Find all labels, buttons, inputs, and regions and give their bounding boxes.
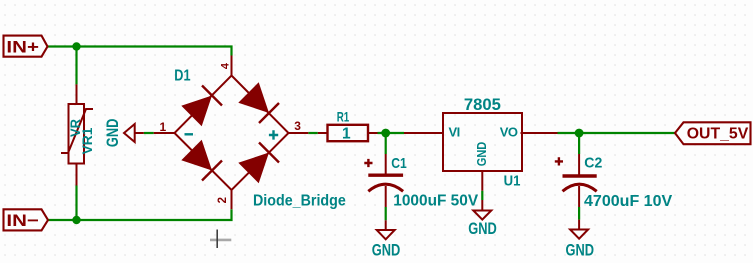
wire VR1 bottom to IN- rail — [75, 186, 77, 221]
wire top rail IN+ to bridge pin4 corner — [48, 47, 232, 56]
svg-text:VR1: VR1 — [79, 127, 95, 154]
wire U1 GND pin to GND symbol — [481, 191, 483, 200]
bridge pin name minus — [185, 133, 194, 135]
C2 plus sign — [555, 157, 563, 165]
GND power symbol under U1 — [473, 200, 491, 220]
svg-text:C1: C1 — [391, 155, 407, 172]
hierarchical label OUT_5V — [675, 122, 751, 144]
hierarchical label IN+ — [4, 36, 48, 57]
hierarchical label IN- — [4, 209, 49, 230]
diode bottom-right — [238, 143, 279, 184]
junction at IN- / VR1 — [72, 216, 80, 224]
U1 pin VI — [404, 132, 443, 134]
svg-text:OUT_5V: OUT_5V — [687, 126, 749, 143]
svg-text:3: 3 — [294, 119, 301, 133]
svg-text:GND: GND — [468, 220, 497, 238]
GND power symbol under C2 — [570, 220, 588, 239]
svg-text:4: 4 — [219, 62, 231, 69]
svg-text:VI: VI — [449, 125, 460, 140]
wire junction down to C1 — [385, 133, 387, 154]
svg-text:D1: D1 — [174, 68, 190, 85]
svg-text:4700uF 10V: 4700uF 10V — [584, 193, 673, 210]
GND power symbol at bridge pin1 — [124, 124, 144, 142]
svg-text:C2: C2 — [584, 155, 602, 172]
capacitor C1 — [368, 154, 403, 207]
svg-text:IN+: IN+ — [6, 37, 39, 56]
capacitor C2 — [563, 154, 597, 207]
bridge pin 2 — [231, 190, 233, 209]
bridge pin 1 — [154, 132, 175, 134]
svg-text:7805: 7805 — [464, 95, 501, 114]
wire R1 to U1 VI with C1 tap — [378, 132, 405, 134]
svg-text:VO: VO — [500, 125, 518, 140]
bridge pin 4 — [231, 56, 233, 76]
varistor VR1 — [61, 84, 93, 185]
diode bridge D1 outline — [175, 76, 289, 191]
GND power symbol under C1 — [377, 220, 395, 239]
svg-text:1000uF 50V: 1000uF 50V — [393, 193, 478, 210]
wire C2 bottom to GND — [578, 207, 580, 220]
svg-text:1: 1 — [342, 126, 351, 143]
wire GND to bridge pin1 — [144, 132, 154, 134]
svg-text:GND: GND — [566, 241, 595, 259]
svg-text:Diode_Bridge: Diode_Bridge — [253, 192, 346, 209]
wire bottom rail IN- to bridge pin2 corner — [48, 209, 232, 220]
svg-text:2: 2 — [217, 197, 229, 203]
sheet origin crosshair marker — [210, 230, 231, 249]
svg-text:U1: U1 — [504, 173, 521, 190]
bridge pin name plus — [269, 130, 278, 139]
svg-text:IN−: IN− — [6, 211, 39, 230]
regulator U1 7805 box — [443, 113, 522, 171]
wire U1 VO to OUT_5V with C2 tap — [558, 132, 676, 134]
svg-text:1: 1 — [159, 120, 166, 134]
wire C1 bottom to GND — [385, 207, 387, 220]
wire IN+ junction down to VR1 — [75, 47, 77, 85]
svg-text:GND: GND — [474, 142, 489, 167]
wire bridge pin3 to R1 — [308, 132, 318, 134]
wire junction down to C2 — [578, 133, 580, 154]
junction at R1 / C1 — [381, 129, 390, 138]
diode top-right — [238, 82, 279, 123]
diode top-left — [181, 86, 222, 127]
svg-text:GND: GND — [104, 119, 122, 148]
resistor R1 — [318, 125, 378, 141]
bridge pin 3 — [289, 132, 309, 134]
U1 pin VO — [521, 132, 558, 134]
diode bottom-left — [181, 140, 222, 181]
junction at VO / C2 — [575, 129, 584, 138]
svg-text:GND: GND — [372, 241, 401, 259]
svg-text:R1: R1 — [337, 108, 350, 124]
junction at IN+ / VR1 — [72, 42, 80, 50]
C1 plus sign — [364, 159, 372, 167]
U1 pin GND — [481, 171, 483, 191]
